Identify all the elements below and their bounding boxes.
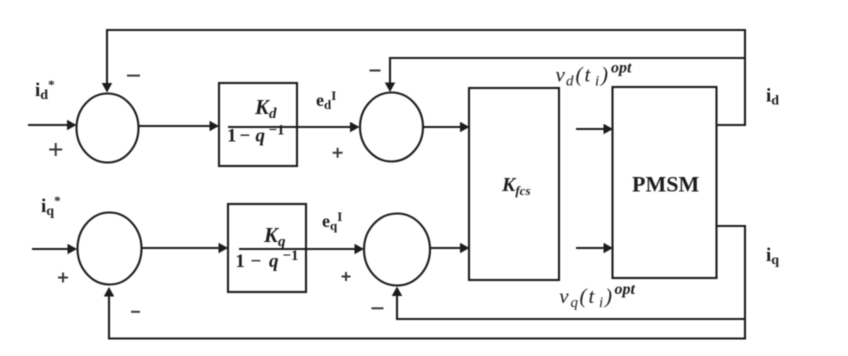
block PMSM xyxy=(613,87,717,278)
svg-text:vq(ti)opt: vq(ti)opt xyxy=(559,281,635,311)
wire right trunk bottom xyxy=(744,225,746,340)
wire PMSM top output to trunk xyxy=(716,124,746,126)
svg-text:vd(ti)opt: vd(ti)opt xyxy=(556,60,633,90)
wire summer 1 to block Kd xyxy=(139,125,218,127)
wire top feedback outer horizontal (id loop) xyxy=(107,29,745,31)
wire input id* into summer 1 xyxy=(28,124,75,126)
svg-text:iq*: iq* xyxy=(41,193,61,219)
summer circle 1 (d-axis error) xyxy=(77,94,139,163)
wire fraction bar Kq and output to summer 4 xyxy=(239,248,363,250)
sign plus summer 3 xyxy=(58,273,68,283)
wire summer 4 to block Kfcs lower xyxy=(430,247,468,249)
svg-text:Kq: Kq xyxy=(263,223,286,250)
wire bottom feedback inner rise into summer 4 xyxy=(396,288,398,320)
svg-text:id*: id* xyxy=(35,77,55,103)
svg-text:Kfcs: Kfcs xyxy=(501,174,531,198)
sign plus summer 4 xyxy=(342,272,351,281)
wire bottom feedback inner horizontal (q loop to summer 4) xyxy=(397,318,745,320)
sign plus summer 2 xyxy=(333,148,343,158)
summer circle 3 (q-axis error) xyxy=(78,213,142,285)
block Kq/(1-q^-1) xyxy=(228,204,306,292)
summer circle 2 (d-axis integral) xyxy=(360,93,423,162)
wire fraction bar Kd and output to summer 2 xyxy=(228,126,358,128)
wire top feedback inner drop into summer 2 xyxy=(389,57,391,91)
wire PMSM bottom output to trunk xyxy=(716,225,746,227)
wire summer 3 to block Kq xyxy=(141,247,227,249)
wire top feedback outer drop into summer 1 xyxy=(106,29,108,91)
wire input iq* into summer 3 xyxy=(32,248,76,250)
svg-text:1−q−1: 1−q−1 xyxy=(227,123,285,147)
wire bottom feedback outer horizontal (q loop to summer 3) xyxy=(109,337,745,339)
wire Kfcs to PMSM upper arrow xyxy=(576,128,612,130)
block Kd/(1-q^-1) xyxy=(219,83,297,166)
sign minus summer 2 xyxy=(370,70,381,72)
sign plus summer 1 xyxy=(49,143,62,156)
wire top feedback inner horizontal (second d loop) xyxy=(390,57,745,59)
block Kfcs xyxy=(469,88,559,280)
svg-text:iq: iq xyxy=(766,245,779,268)
svg-text:edI: edI xyxy=(316,88,336,112)
svg-text:Kd: Kd xyxy=(254,95,277,122)
sign minus summer 4 xyxy=(372,307,384,309)
wire Kfcs to PMSM lower arrow xyxy=(576,247,612,249)
svg-text:1−q−1: 1−q−1 xyxy=(235,248,298,272)
wire summer 2 to block Kfcs xyxy=(423,126,468,128)
wire bottom feedback outer rise into summer 3 xyxy=(108,289,110,340)
svg-text:eqI: eqI xyxy=(322,209,342,233)
summer circle 4 (q-axis integral) xyxy=(364,214,430,286)
sign minus summer 1 xyxy=(127,75,140,77)
sign minus summer 3 xyxy=(131,311,140,313)
wire right trunk top xyxy=(744,29,746,126)
svg-text:id: id xyxy=(766,86,779,109)
svg-text:PMSM: PMSM xyxy=(632,172,699,197)
